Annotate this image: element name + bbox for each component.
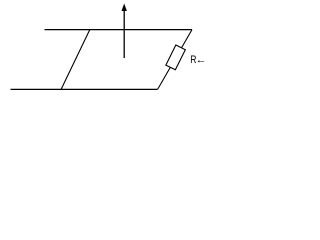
wire: top rail [45,29,193,31]
wire: left slant rod [61,30,90,90]
svg-text:←: ← [196,54,207,66]
arrow: upward pointer [122,4,127,59]
resistor R [166,45,185,70]
wire: right branch [158,30,192,90]
wire: bottom rail [11,88,158,90]
